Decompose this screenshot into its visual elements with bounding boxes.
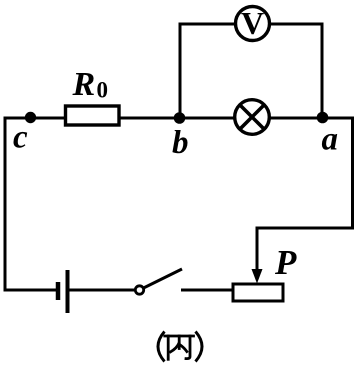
lamp (circle with X) xyxy=(235,100,270,135)
voltmeter V xyxy=(236,5,270,41)
label R0 xyxy=(72,66,109,103)
label a xyxy=(322,122,339,158)
wire: left side vertical from c down to battery row xyxy=(4,117,7,291)
wire: battery to switch xyxy=(69,289,136,292)
wire: main horizontal c-b-a row xyxy=(5,117,354,120)
resistor R0 xyxy=(66,106,120,125)
wire: switch to rheostat xyxy=(181,289,234,292)
svg-text:b: b xyxy=(172,125,189,161)
svg-text:R: R xyxy=(72,66,96,103)
caption (丙) xyxy=(158,332,202,362)
rheostat wiper arrow xyxy=(252,227,263,284)
node c xyxy=(25,112,36,123)
svg-text:P: P xyxy=(274,243,297,282)
wire: voltmeter branch left vertical (down to node b) xyxy=(179,23,182,119)
label P xyxy=(274,243,297,282)
wire: wiper top horizontal xyxy=(257,227,354,230)
svg-text:c: c xyxy=(13,120,28,156)
switch S (open) xyxy=(135,269,182,294)
battery cell xyxy=(58,270,68,313)
svg-text:a: a xyxy=(322,122,339,158)
wire: right side vertical from a-row down xyxy=(351,117,354,229)
wire: voltmeter branch right vertical (down to node a) xyxy=(321,23,324,119)
node a xyxy=(317,112,329,124)
wire: bottom left horizontal to battery xyxy=(4,289,57,292)
wire: voltmeter top branch horizontal xyxy=(180,23,322,26)
svg-text:0: 0 xyxy=(97,78,109,103)
label c xyxy=(13,120,28,156)
label b xyxy=(172,125,189,161)
rheostat P body xyxy=(233,284,283,301)
svg-text:V: V xyxy=(241,5,264,41)
node b xyxy=(174,112,186,124)
